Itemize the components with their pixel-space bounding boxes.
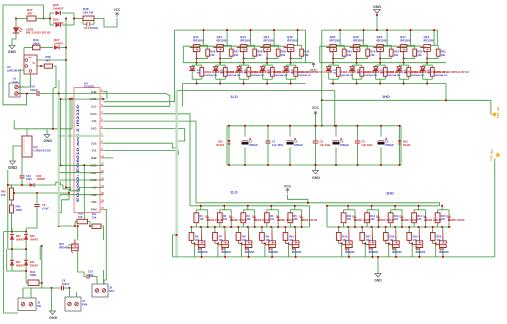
svg-text:10k: 10k bbox=[366, 239, 371, 242]
svg-text:VCC: VCC bbox=[114, 8, 121, 12]
svg-text:10k: 10k bbox=[441, 218, 446, 221]
svg-text:10k: 10k bbox=[223, 218, 228, 221]
svg-text:1N4744A 15V: 1N4744A 15V bbox=[298, 74, 312, 77]
svg-text:1W: 1W bbox=[380, 73, 383, 75]
svg-text:ZD5: ZD5 bbox=[284, 68, 289, 71]
svg-text:GND: GND bbox=[49, 316, 58, 320]
svg-text:10k: 10k bbox=[266, 239, 271, 242]
svg-text:C8: C8 bbox=[62, 279, 66, 283]
svg-text:ZD4: ZD4 bbox=[397, 68, 402, 71]
svg-text:2200uF: 2200uF bbox=[340, 143, 349, 147]
svg-text:ZD1: ZD1 bbox=[327, 68, 332, 71]
svg-text:DIODE 1N4148: DIODE 1N4148 bbox=[449, 219, 466, 222]
svg-text:10k: 10k bbox=[210, 53, 215, 57]
svg-text:CAO: CAO bbox=[90, 112, 97, 116]
svg-text:100n: 100n bbox=[26, 177, 32, 181]
svg-text:C4: C4 bbox=[385, 139, 389, 143]
svg-text:10k: 10k bbox=[257, 53, 262, 57]
svg-text:100 1W: 100 1W bbox=[83, 11, 94, 15]
svg-text:1N4744A 15V: 1N4744A 15V bbox=[411, 74, 425, 77]
svg-text:C16: C16 bbox=[26, 174, 31, 178]
svg-text:DIODE 1N4148: DIODE 1N4148 bbox=[254, 219, 271, 222]
svg-text:C14: C14 bbox=[30, 84, 35, 88]
svg-text:TFB: TFB bbox=[91, 200, 96, 204]
svg-text:IRF3205: IRF3205 bbox=[245, 251, 255, 254]
svg-text:1W: 1W bbox=[267, 73, 270, 75]
svg-text:1N4744A 15V: 1N4744A 15V bbox=[228, 74, 242, 77]
svg-text:DIODE 1N4148: DIODE 1N4148 bbox=[278, 219, 295, 222]
svg-text:IRF3205: IRF3205 bbox=[424, 38, 435, 42]
svg-text:1N4744A 15V: 1N4744A 15V bbox=[204, 74, 218, 77]
svg-text:2HB: 2HB bbox=[91, 156, 97, 160]
svg-text:D27: D27 bbox=[54, 38, 60, 42]
svg-text:C9: C9 bbox=[320, 139, 324, 143]
svg-text:D24: D24 bbox=[16, 234, 21, 238]
svg-text:C1: C1 bbox=[249, 139, 253, 143]
svg-text:D32: D32 bbox=[37, 174, 42, 178]
svg-text:ZD2: ZD2 bbox=[214, 68, 219, 71]
svg-text:IRF3205: IRF3205 bbox=[268, 251, 278, 254]
svg-text:1W: 1W bbox=[291, 73, 294, 75]
svg-text:C5: C5 bbox=[42, 203, 46, 207]
svg-text:10k: 10k bbox=[195, 239, 200, 242]
svg-text:IRF3205: IRF3205 bbox=[369, 251, 379, 254]
svg-text:10k: 10k bbox=[78, 215, 83, 219]
svg-text:10k: 10k bbox=[389, 239, 394, 242]
svg-text:10k: 10k bbox=[441, 53, 446, 57]
svg-text:1N4744A 15V: 1N4744A 15V bbox=[251, 74, 265, 77]
svg-text:10k: 10k bbox=[413, 239, 418, 242]
svg-text:IRF3205: IRF3205 bbox=[330, 38, 341, 42]
svg-text:R40: R40 bbox=[1, 190, 6, 194]
svg-text:J1: J1 bbox=[13, 77, 17, 81]
svg-text:1LO: 1LO bbox=[230, 95, 237, 99]
svg-text:1W: 1W bbox=[427, 73, 430, 75]
svg-text:IRF3205: IRF3205 bbox=[193, 38, 204, 42]
svg-text:1uF 100v: 1uF 100v bbox=[320, 143, 332, 147]
svg-text:NTC: NTC bbox=[109, 289, 114, 293]
svg-text:C3: C3 bbox=[340, 139, 344, 143]
svg-text:10k: 10k bbox=[219, 239, 224, 242]
svg-text:2HO: 2HO bbox=[386, 191, 394, 195]
svg-text:BA159: BA159 bbox=[403, 144, 411, 147]
svg-text:V11: V11 bbox=[92, 119, 97, 123]
svg-text:IRF3205: IRF3205 bbox=[416, 251, 426, 254]
svg-text:IRF3205: IRF3205 bbox=[345, 251, 355, 254]
svg-text:DIODE ZENER 1N4744A 15V 1W: DIODE ZENER 1N4744A 15V 1W bbox=[435, 71, 470, 74]
svg-text:10k: 10k bbox=[417, 53, 422, 57]
svg-text:LNK11W-6P: LNK11W-6P bbox=[7, 69, 21, 72]
svg-text:10k: 10k bbox=[417, 218, 422, 221]
svg-text:DIODE 1N4148: DIODE 1N4148 bbox=[231, 219, 248, 222]
svg-text:BA159: BA159 bbox=[217, 144, 225, 147]
svg-text:10k: 10k bbox=[247, 218, 252, 221]
svg-text:IRF540N: IRF540N bbox=[59, 247, 69, 250]
svg-text:IRF3205: IRF3205 bbox=[353, 38, 364, 42]
svg-text:1N4744A 15V: 1N4744A 15V bbox=[364, 74, 378, 77]
svg-text:VCC: VCC bbox=[310, 69, 317, 73]
svg-text:100nF: 100nF bbox=[90, 26, 98, 30]
svg-text:10k: 10k bbox=[234, 53, 239, 57]
svg-text:IRF3205: IRF3205 bbox=[392, 251, 402, 254]
svg-text:IRF3205: IRF3205 bbox=[264, 38, 275, 42]
svg-text:10k: 10k bbox=[304, 53, 309, 57]
svg-text:EGS002: EGS002 bbox=[84, 85, 95, 89]
svg-text:1W: 1W bbox=[197, 73, 200, 75]
svg-text:1W: 1W bbox=[244, 73, 247, 75]
svg-text:10uF: 10uF bbox=[88, 274, 94, 277]
svg-text:IRF3205: IRF3205 bbox=[400, 38, 411, 42]
svg-text:1AO: 1AO bbox=[91, 127, 98, 131]
svg-text:IRF3205: IRF3205 bbox=[377, 38, 388, 42]
svg-text:10k: 10k bbox=[200, 218, 205, 221]
svg-text:10k: 10k bbox=[294, 218, 299, 221]
svg-text:ZD1: ZD1 bbox=[190, 68, 195, 71]
svg-text:C7: C7 bbox=[272, 139, 276, 143]
svg-text:1HB: 1HB bbox=[91, 90, 97, 94]
svg-text:10k: 10k bbox=[289, 239, 294, 242]
svg-text:D22: D22 bbox=[16, 260, 21, 264]
svg-text:1N4007: 1N4007 bbox=[16, 238, 25, 241]
svg-text:DIODE 1N4148: DIODE 1N4148 bbox=[378, 219, 395, 222]
svg-text:2200uF: 2200uF bbox=[249, 143, 258, 147]
svg-text:GND: GND bbox=[8, 50, 17, 54]
svg-text:PB: PB bbox=[37, 304, 41, 308]
svg-text:D21: D21 bbox=[30, 260, 35, 264]
svg-text:SML-LX1610 203-100: SML-LX1610 203-100 bbox=[26, 32, 51, 35]
svg-text:ZD4: ZD4 bbox=[261, 68, 266, 71]
svg-text:DIODE 1N4148: DIODE 1N4148 bbox=[402, 219, 419, 222]
svg-text:C2: C2 bbox=[294, 139, 298, 143]
svg-text:2200uF: 2200uF bbox=[294, 143, 303, 147]
svg-text:FAN: FAN bbox=[82, 303, 87, 307]
svg-text:IRF3205: IRF3205 bbox=[439, 251, 449, 254]
svg-text:ZD3: ZD3 bbox=[237, 68, 242, 71]
svg-text:10k: 10k bbox=[347, 218, 352, 221]
svg-text:IRF3205: IRF3205 bbox=[292, 251, 302, 254]
svg-text:1N4007: 1N4007 bbox=[30, 238, 39, 241]
svg-text:VCC: VCC bbox=[284, 184, 292, 188]
svg-text:1N4744A 15V: 1N4744A 15V bbox=[435, 74, 449, 77]
svg-text:2LB: 2LB bbox=[91, 141, 96, 145]
svg-text:J4: J4 bbox=[82, 299, 85, 303]
svg-text:10k: 10k bbox=[370, 53, 375, 57]
svg-text:GND: GND bbox=[373, 5, 382, 9]
svg-text:10k: 10k bbox=[270, 218, 275, 221]
svg-text:DIODE 1N4148: DIODE 1N4148 bbox=[425, 219, 442, 222]
svg-text:DIODE 1N4148: DIODE 1N4148 bbox=[355, 219, 372, 222]
svg-text:10k: 10k bbox=[342, 239, 347, 242]
svg-text:2200uF: 2200uF bbox=[385, 143, 394, 147]
svg-text:J2: J2 bbox=[37, 301, 40, 305]
svg-text:100K: 100K bbox=[30, 273, 36, 277]
svg-text:1W: 1W bbox=[333, 73, 336, 75]
svg-text:IRF3205: IRF3205 bbox=[240, 38, 251, 42]
svg-text:10k: 10k bbox=[281, 53, 286, 57]
svg-text:10k: 10k bbox=[370, 218, 375, 221]
svg-text:1uF 100v: 1uF 100v bbox=[362, 143, 374, 147]
svg-text:R44: R44 bbox=[16, 205, 21, 209]
svg-text:10k: 10k bbox=[394, 218, 399, 221]
svg-text:1N4744A 15V: 1N4744A 15V bbox=[275, 74, 289, 77]
svg-text:GND: GND bbox=[374, 279, 382, 283]
svg-text:100uF: 100uF bbox=[30, 88, 38, 92]
svg-text:IRF3205: IRF3205 bbox=[287, 38, 298, 42]
svg-text:100nF: 100nF bbox=[62, 283, 70, 286]
svg-text:1W: 1W bbox=[404, 73, 407, 75]
svg-text:100K: 100K bbox=[16, 208, 22, 212]
svg-text:ZD2: ZD2 bbox=[350, 68, 355, 71]
svg-text:1W: 1W bbox=[220, 73, 223, 75]
svg-text:1uF 100n: 1uF 100n bbox=[272, 143, 284, 147]
svg-text:TP2_out: TP2_out bbox=[490, 150, 494, 161]
svg-text:L7805ACV DG: L7805ACV DG bbox=[34, 149, 51, 153]
svg-text:C13: C13 bbox=[84, 26, 90, 30]
svg-text:DIODE 1N4148: DIODE 1N4148 bbox=[301, 219, 318, 222]
svg-text:10k: 10k bbox=[92, 216, 97, 220]
svg-text:4k7: 4k7 bbox=[46, 58, 51, 62]
svg-text:J5: J5 bbox=[109, 286, 112, 290]
svg-text:TP1_out: TP1_out bbox=[496, 107, 500, 118]
svg-text:1N4744A 15V: 1N4744A 15V bbox=[341, 74, 355, 77]
svg-text:1N4007: 1N4007 bbox=[53, 7, 64, 11]
svg-text:1N4007: 1N4007 bbox=[30, 264, 39, 267]
svg-text:10k: 10k bbox=[436, 239, 441, 242]
svg-text:10k: 10k bbox=[242, 239, 247, 242]
svg-text:10k: 10k bbox=[347, 53, 352, 57]
svg-text:DIODE 1N4148: DIODE 1N4148 bbox=[207, 219, 224, 222]
svg-text:1N4007: 1N4007 bbox=[16, 264, 25, 267]
svg-text:1N4007: 1N4007 bbox=[53, 21, 64, 25]
svg-text:330k: 330k bbox=[33, 42, 40, 46]
svg-text:2LO: 2LO bbox=[231, 190, 238, 194]
svg-text:IRF3205: IRF3205 bbox=[221, 251, 231, 254]
svg-text:ZD5: ZD5 bbox=[421, 68, 426, 71]
svg-text:GND: GND bbox=[8, 165, 17, 170]
svg-text:4R7: 4R7 bbox=[27, 12, 33, 16]
svg-text:4.7uF: 4.7uF bbox=[42, 207, 49, 211]
svg-text:FAN: FAN bbox=[91, 208, 97, 212]
svg-text:12V: 12V bbox=[13, 80, 18, 84]
svg-text:Y51: Y51 bbox=[92, 149, 97, 153]
svg-text:IRF3205: IRF3205 bbox=[217, 38, 228, 42]
svg-text:IRF3205: IRF3205 bbox=[198, 251, 208, 254]
svg-text:VCC: VCC bbox=[312, 106, 320, 110]
svg-text:D23: D23 bbox=[30, 234, 35, 238]
svg-text:1LO: 1LO bbox=[91, 105, 97, 109]
svg-text:100: 100 bbox=[1, 193, 6, 197]
svg-text:GND: GND bbox=[312, 176, 320, 180]
svg-text:1N4744A 15V: 1N4744A 15V bbox=[388, 74, 402, 77]
svg-text:C6: C6 bbox=[362, 139, 366, 143]
svg-text:1N4007: 1N4007 bbox=[37, 178, 46, 181]
svg-text:Q21: Q21 bbox=[59, 242, 64, 246]
svg-text:1N4007: 1N4007 bbox=[54, 42, 64, 46]
svg-text:10k: 10k bbox=[394, 53, 399, 57]
svg-text:1HO: 1HO bbox=[382, 95, 390, 99]
svg-text:1W: 1W bbox=[357, 73, 360, 75]
svg-text:D10: D10 bbox=[447, 216, 452, 219]
svg-text:GND: GND bbox=[43, 138, 52, 143]
svg-text:IC2: IC2 bbox=[34, 145, 39, 149]
svg-text:ZD3: ZD3 bbox=[374, 68, 379, 71]
